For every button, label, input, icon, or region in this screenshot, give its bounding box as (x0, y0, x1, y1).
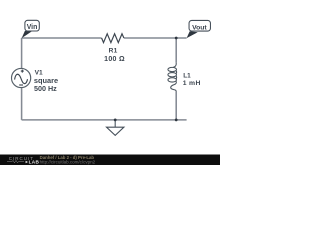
node junction dot ground (114, 119, 117, 122)
svg-text:R1: R1 (109, 48, 118, 55)
node Vout flag (187, 20, 211, 38)
node Vin flag (22, 20, 40, 38)
inductor L1 (168, 63, 177, 92)
footer bar (0, 155, 220, 166)
svg-text:500 Hz: 500 Hz (34, 84, 57, 93)
wire right vertical upper (175, 38, 177, 63)
svg-text:100 Ω: 100 Ω (104, 56, 125, 63)
node junction dot bottom right (175, 119, 178, 122)
svg-text:Vin: Vin (27, 24, 38, 31)
ground (107, 120, 124, 135)
wire bottom (22, 119, 187, 121)
wire right vertical lower (175, 92, 177, 120)
svg-text:Vout: Vout (192, 24, 207, 31)
svg-text:http://circuitlab.com/c/cvpn2: http://circuitlab.com/c/cvpn2 (40, 159, 96, 164)
resistor R1 (102, 34, 124, 43)
wire left vertical upper (21, 38, 23, 68)
wire top-left to resistor (22, 37, 102, 39)
node junction dot top right (175, 37, 178, 40)
svg-text:L1: L1 (183, 73, 191, 80)
footer logo wire art (7, 160, 24, 162)
svg-text:LAB: LAB (29, 160, 40, 165)
svg-text:1 mH: 1 mH (183, 80, 201, 87)
wire resistor to Vout node (124, 37, 187, 39)
wire left vertical lower (21, 88, 23, 120)
voltage source V1 (12, 68, 31, 87)
